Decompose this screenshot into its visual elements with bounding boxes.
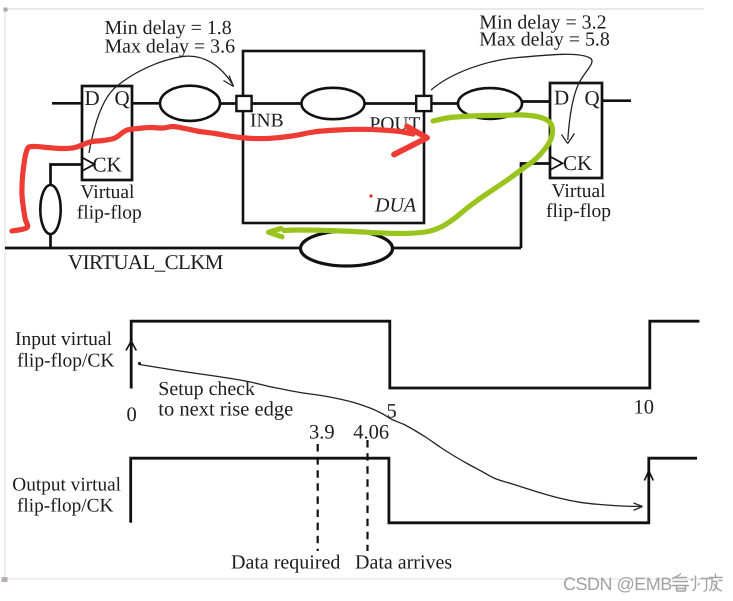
red marker stroke <box>12 126 413 231</box>
annotation curve (POUT to CK) <box>431 54 592 140</box>
svg-text:CSDN @EMB: CSDN @EMB <box>563 574 672 594</box>
U1 body <box>82 86 132 180</box>
watermark: CSDN @EMB (CJK glyphs drawn as paths) <box>563 574 723 595</box>
arrowhead on input rise edge <box>126 341 136 351</box>
svg-text:Input virtual: Input virtual <box>15 329 113 350</box>
label: Input virtual flip-flop/CK <box>15 329 115 371</box>
svg-text:Data arrives: Data arrives <box>355 552 452 574</box>
svg-text:Max delay = 5.8: Max delay = 5.8 <box>479 29 610 51</box>
setup-check curve arrow <box>138 362 643 510</box>
灯 <box>691 576 711 592</box>
flip-flop U2 (right virtual flip-flop) <box>550 83 602 178</box>
svg-text:flip-flop: flip-flop <box>546 201 611 222</box>
svg-text:Q: Q <box>115 86 130 110</box>
svg-text:D: D <box>554 86 569 110</box>
svg-text:CK: CK <box>563 151 592 175</box>
wire: U2 Q output stub <box>602 99 631 102</box>
svg-text:to next rise edge: to next rise edge <box>158 398 293 420</box>
label: Virtual flip-flop (left) <box>77 182 142 223</box>
wire: U1 CK branch <box>51 165 83 187</box>
green marker arrowhead <box>269 229 283 237</box>
svg-text:3.9: 3.9 <box>309 422 335 444</box>
wire: B3 to FF2 D <box>522 100 550 103</box>
svg-text:Data required: Data required <box>231 552 340 574</box>
flip-flop U1 (left virtual flip-flop) <box>82 86 132 180</box>
wire: POUT to buffer B3 <box>431 102 458 105</box>
dashed marker at 3.9 (data required) <box>317 444 319 551</box>
svg-text:0: 0 <box>127 404 137 426</box>
green marker path (output data path) <box>269 115 553 237</box>
svg-text:Max delay = 3.6: Max delay = 3.6 <box>105 35 236 57</box>
label: Setup check / to next rise edge <box>158 378 293 420</box>
svg-text:flip-flop: flip-flop <box>77 202 142 223</box>
夜 <box>709 574 723 592</box>
annotation arrow: FF1 CK to INB <box>89 56 234 153</box>
red marker arrowhead <box>394 127 427 155</box>
svg-text:10: 10 <box>634 397 655 419</box>
port INB (square pin) <box>236 96 251 111</box>
dashed marker at 4.06 (data arrives) <box>366 440 368 551</box>
svg-text:DUA: DUA <box>374 195 417 217</box>
arrowhead at CK (U2) <box>562 134 575 144</box>
buffer B3 (ellipse) <box>458 88 522 119</box>
label: Min delay = 3.2 / Max delay = 5.8 <box>479 11 610 50</box>
red marker path (input data path) <box>12 126 427 231</box>
label: Virtual flip-flop (right) <box>546 181 611 222</box>
DUA block <box>243 51 424 223</box>
wire: D input stub of U1 <box>52 102 82 105</box>
buffer B1 (ellipse) <box>160 86 220 121</box>
wire: U2 CK branch <box>521 164 550 249</box>
buffer B2 (ellipse inside DUA) <box>302 88 365 119</box>
annotation curve (CK to INB) <box>89 56 234 153</box>
clock triangle (U2) <box>550 157 563 171</box>
svg-text:Virtual: Virtual <box>80 182 135 203</box>
annotation arrow: POUT to FF2 CK <box>431 54 592 143</box>
svg-text:flip-flop/CK: flip-flop/CK <box>17 350 115 371</box>
setup-check curve <box>140 365 642 507</box>
看 <box>672 574 690 592</box>
svg-text:VIRTUAL_CLKM: VIRTUAL_CLKM <box>68 250 224 274</box>
label: Output virtual flip-flop/CK <box>12 475 121 517</box>
input clock waveform <box>131 321 699 388</box>
svg-text:Virtual: Virtual <box>552 181 607 202</box>
arrowhead at output rise edge <box>634 503 643 510</box>
wire: VIRTUAL_CLKM rail <box>5 247 521 250</box>
U2 body <box>550 83 602 178</box>
svg-text:Setup check: Setup check <box>158 378 255 400</box>
wire: U1 Q to buffer B1 <box>132 102 161 105</box>
wire: B4 to clock rail <box>49 234 52 248</box>
output clock waveform <box>131 458 697 523</box>
clock buffer B5 (big ellipse on rail) <box>301 231 393 266</box>
svg-text:D: D <box>85 86 100 110</box>
svg-text:flip-flop/CK: flip-flop/CK <box>17 495 113 516</box>
svg-text:Q: Q <box>585 86 600 110</box>
wire: B2 to POUT <box>365 102 417 105</box>
port POUT (square pin) <box>416 96 431 111</box>
green marker stroke <box>284 115 553 234</box>
curve start dot <box>138 362 141 365</box>
svg-text:Output virtual: Output virtual <box>12 475 121 496</box>
clock triangle (U1) <box>82 158 95 172</box>
arrowhead on output rise edge <box>644 471 653 481</box>
svg-text:4.06: 4.06 <box>353 422 389 444</box>
red dot near DUA label <box>369 194 372 197</box>
wire: B1 to INB <box>220 102 237 105</box>
wire: INB to buffer B2 <box>252 102 302 105</box>
arrowhead at INB <box>224 76 234 87</box>
clock buffer B4 (vertical ellipse) <box>40 185 60 234</box>
svg-text:INB: INB <box>250 111 284 132</box>
svg-text:CK: CK <box>93 153 122 177</box>
label: Min delay = 1.8 / Max delay = 3.6 <box>105 17 236 57</box>
